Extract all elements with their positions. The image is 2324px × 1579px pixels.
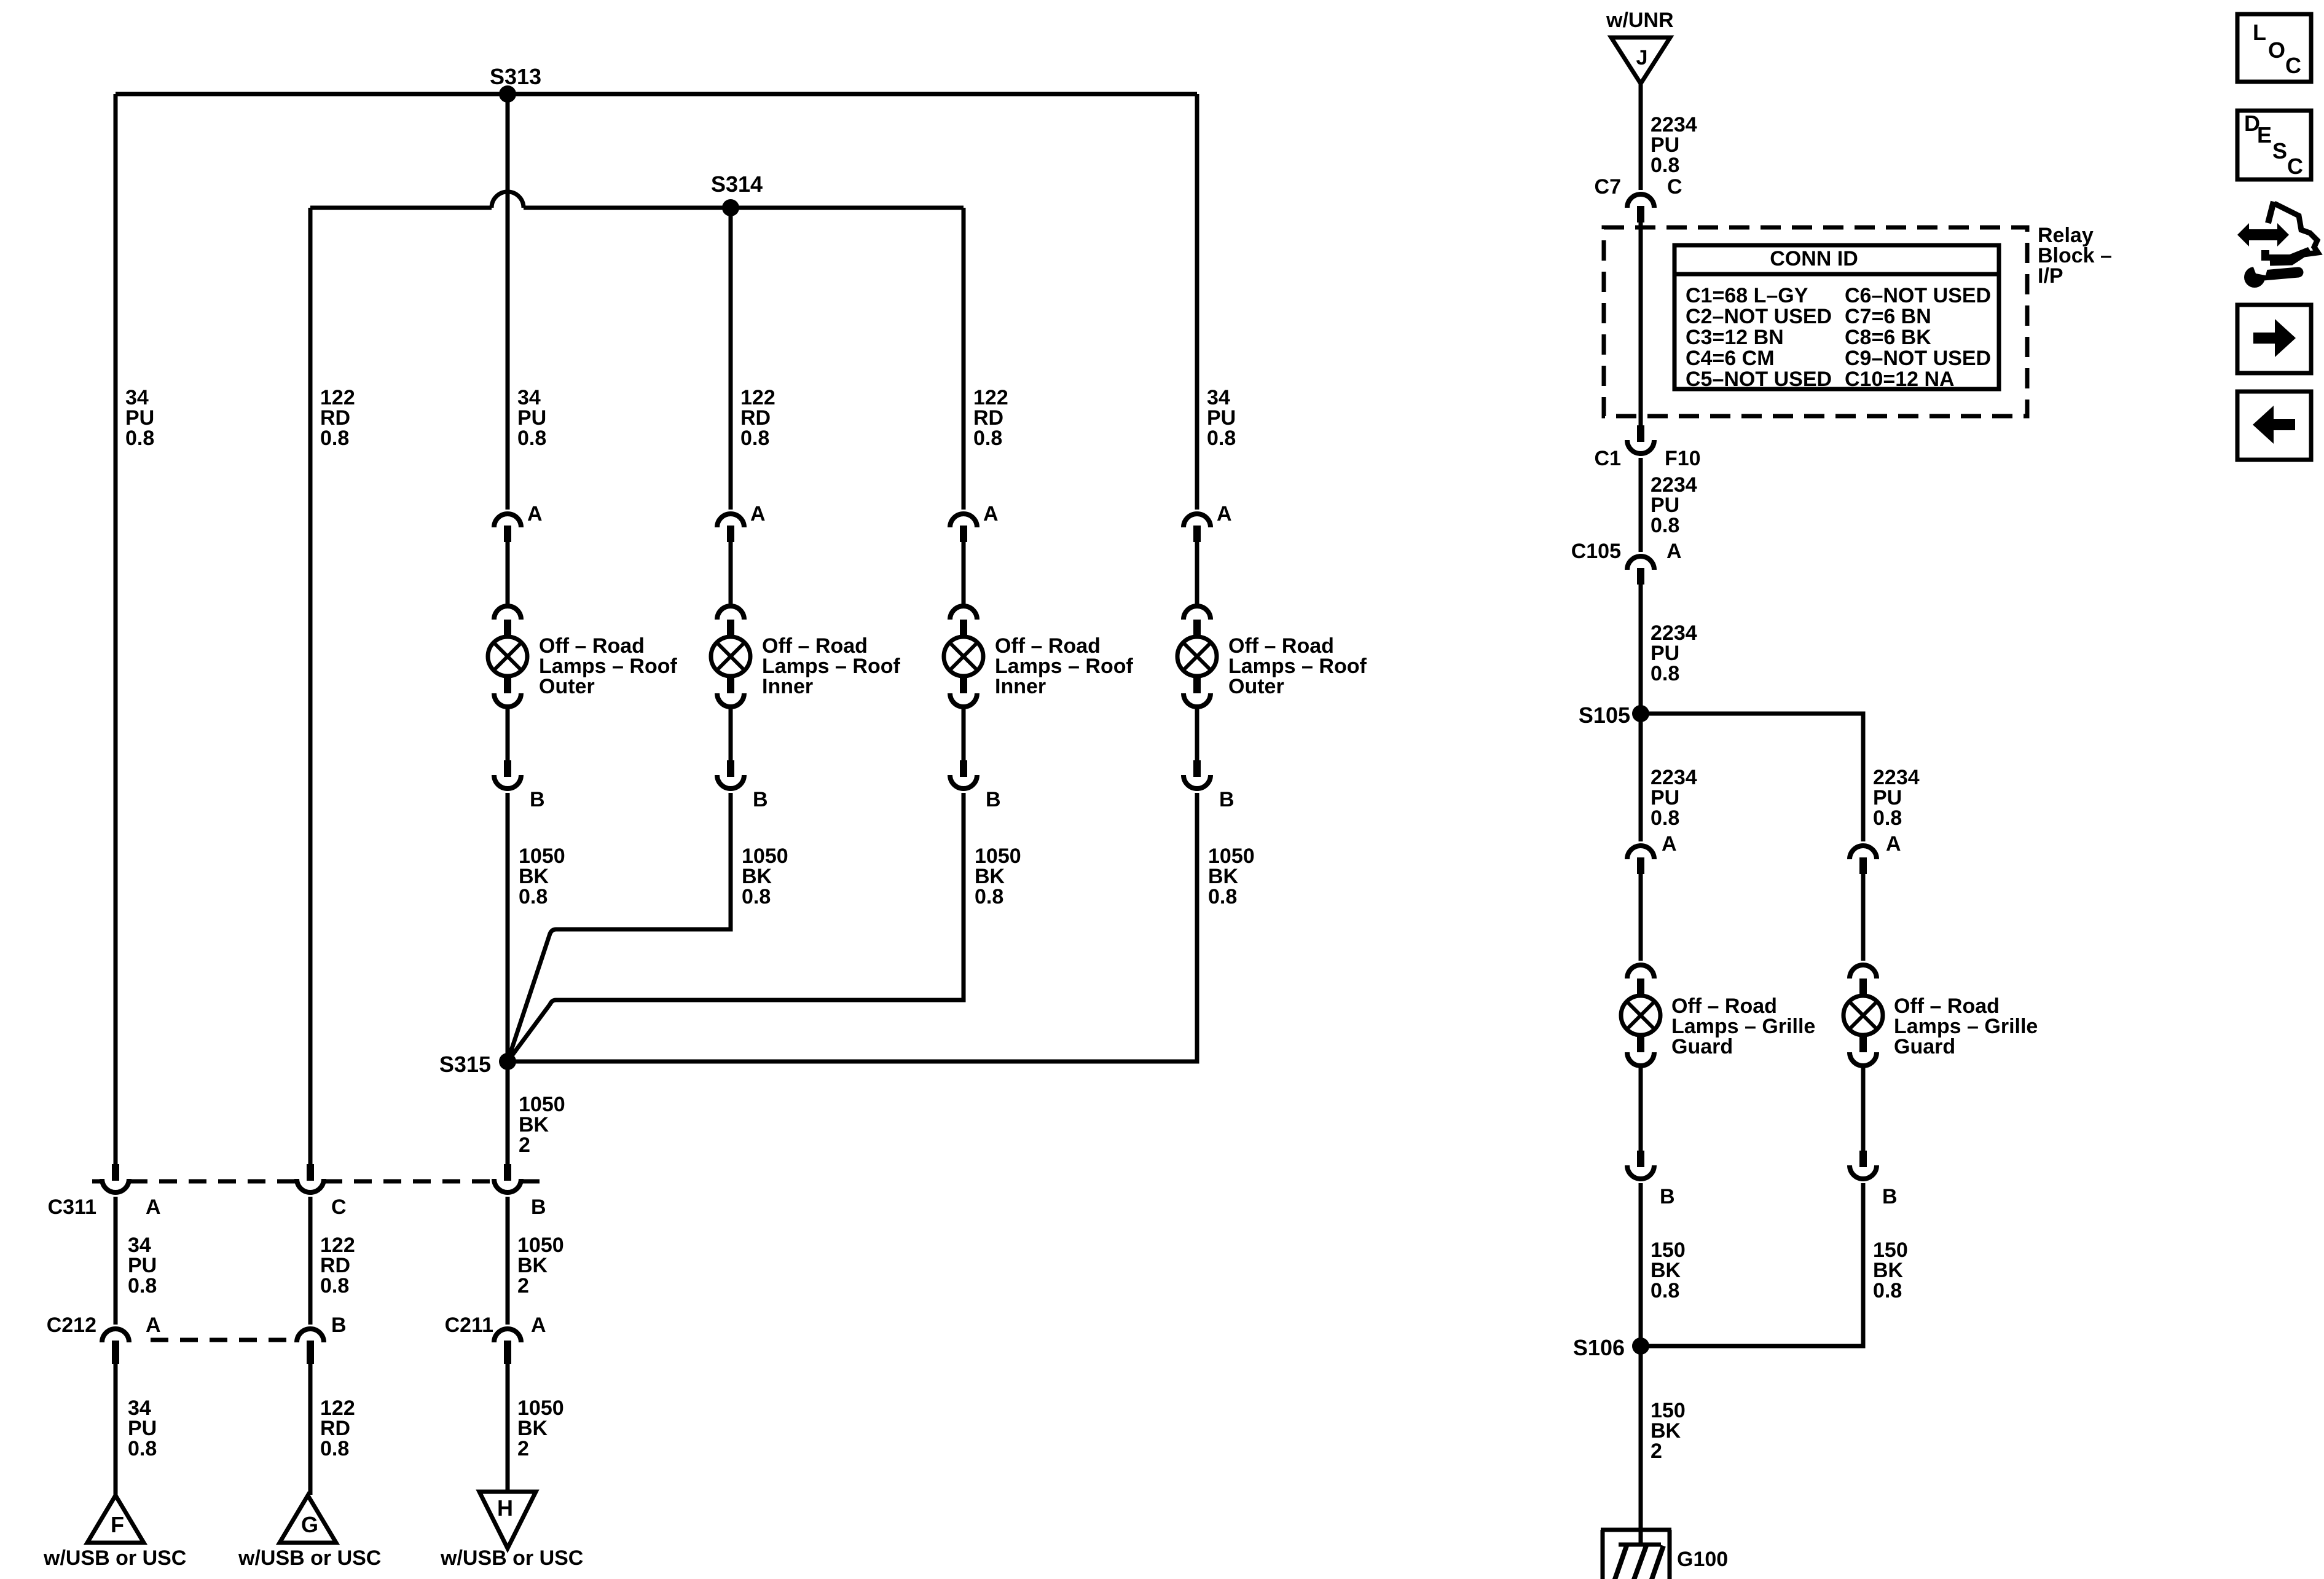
svg-text:Inner: Inner <box>762 675 813 698</box>
wire lamp 4 feed <box>1195 542 1199 607</box>
svg-text:C9–NOT USED: C9–NOT USED <box>1845 347 1991 370</box>
connector C311 terminal C <box>297 1164 324 1192</box>
svg-text:w/UNR: w/UNR <box>1606 9 1674 32</box>
off-road lamp 3 (Off - Road Lamps - Roof Inner) <box>944 606 983 707</box>
pin label A grille lamp left <box>1662 832 1677 856</box>
svg-text:A: A <box>1886 832 1901 856</box>
svg-text:0.8: 0.8 <box>128 1437 157 1460</box>
wire label 1050 BK 0.8 col3 <box>975 845 1021 908</box>
svg-text:0.8: 0.8 <box>125 427 154 450</box>
wire label 1050 BK 0.8 col4 <box>1208 845 1255 908</box>
svg-text:w/USB or USC: w/USB or USC <box>43 1546 186 1570</box>
off-road lamp grille right (Off - Road Lamps - Grille Guard) <box>1843 965 1883 1066</box>
splice S315 label <box>439 1052 491 1077</box>
svg-text:0.8: 0.8 <box>975 885 1003 908</box>
svg-text:G100: G100 <box>1677 1548 1728 1571</box>
wire 1050 BK col1 to S315 <box>506 793 510 1165</box>
CONN ID table left column <box>1686 284 1832 391</box>
svg-text:0.8: 0.8 <box>1873 1279 1902 1302</box>
wire lamp 1 feed <box>506 542 510 607</box>
qualifier label w/USB or USC (G) <box>238 1546 381 1570</box>
svg-text:A: A <box>531 1313 546 1337</box>
pin label A C212 <box>146 1313 161 1337</box>
wire 150 BK right to S106 <box>1641 1183 1863 1346</box>
wire 150 BK left to S106 <box>1639 1183 1643 1346</box>
back navigation box <box>2237 392 2311 460</box>
svg-text:C311: C311 <box>48 1195 96 1219</box>
svg-text:Guard: Guard <box>1671 1035 1733 1058</box>
LOC letters <box>2253 20 2301 78</box>
off-page connector triangle H <box>479 1492 536 1548</box>
lamp 2 name label <box>762 634 900 698</box>
pin label C C311 <box>331 1195 347 1219</box>
wire label 34 PU 0.8 left <box>125 386 154 450</box>
off-page connector triangle F <box>87 1495 144 1543</box>
connector C311 label <box>48 1195 96 1219</box>
CONN ID table header separator <box>1674 272 1999 277</box>
wire 122 RD C212 to G <box>308 1363 313 1495</box>
svg-text:C7: C7 <box>1595 175 1621 199</box>
connector C1 label <box>1595 447 1621 470</box>
svg-text:A: A <box>1666 540 1682 563</box>
connector C311 dashed boundary <box>92 1179 540 1184</box>
svg-text:S315: S315 <box>439 1052 491 1077</box>
wire label 122 RD 0.8 row3 <box>320 1396 355 1460</box>
splice S106 junction dot <box>1632 1337 1649 1355</box>
DESC navigation box <box>2237 111 2311 179</box>
off-page connector triangle J <box>1611 37 1670 84</box>
wire lamp 3 return <box>962 706 966 760</box>
connector pin A lamp 1 <box>494 514 521 542</box>
connector C1 terminal F10 <box>1627 425 1654 454</box>
wire 1050 BK C311 to C211 <box>506 1197 510 1325</box>
svg-text:0.8: 0.8 <box>519 885 548 908</box>
connector C311 terminal B <box>494 1164 521 1192</box>
wire label 122 RD 0.8 col3 <box>973 386 1008 450</box>
wire label 1050 BK 0.8 col1 <box>519 845 565 908</box>
connector pin B grille lamp left <box>1627 1151 1654 1179</box>
svg-text:F10: F10 <box>1665 447 1701 470</box>
svg-text:S105: S105 <box>1579 703 1630 728</box>
wire label 34 PU 0.8 row3 left <box>128 1396 157 1460</box>
svg-text:C6–NOT USED: C6–NOT USED <box>1845 284 1991 307</box>
wire label 2234 PU 0.8 right branch <box>1873 766 1920 830</box>
svg-text:CONN ID: CONN ID <box>1770 247 1858 270</box>
svg-text:C: C <box>2287 154 2303 179</box>
pin label B lamp 2 <box>753 788 768 811</box>
lamp 1 name label <box>539 634 677 698</box>
svg-text:I/P: I/P <box>2038 264 2063 288</box>
svg-text:H: H <box>497 1495 513 1521</box>
triangle J letter <box>1636 46 1648 69</box>
wire 122 RD from S314 to lamp column 3 <box>962 208 966 510</box>
pin label B grille left <box>1660 1185 1675 1208</box>
wire lamp 1 return <box>506 706 510 760</box>
qualifier label w/USB or USC (F) <box>43 1546 186 1570</box>
svg-text:A: A <box>1662 832 1677 856</box>
svg-text:w/USB or USC: w/USB or USC <box>440 1546 583 1570</box>
connector C211 terminal A <box>494 1329 521 1364</box>
pin label A lamp 4 <box>1217 502 1232 526</box>
wire label 34 PU 0.8 col1 <box>517 386 546 450</box>
connector pin B grille lamp right <box>1850 1151 1877 1179</box>
wire S313 horizontal bus <box>116 92 1197 96</box>
triangle H letter <box>497 1495 513 1521</box>
pin label A lamp 2 <box>750 502 766 526</box>
relay block I/P dashed outline <box>1604 227 2027 416</box>
svg-text:B: B <box>1882 1185 1898 1208</box>
qualifier label w/UNR <box>1606 9 1674 32</box>
wire label 34 PU 0.8 col4 <box>1207 386 1236 450</box>
svg-text:0.8: 0.8 <box>1873 806 1902 830</box>
wire 122 RD C311 to C212 <box>308 1197 313 1325</box>
svg-text:0.8: 0.8 <box>320 427 349 450</box>
pin label B lamp 4 <box>1219 788 1235 811</box>
forward navigation box <box>2237 305 2311 373</box>
connector C105 label <box>1571 540 1621 563</box>
svg-text:0.8: 0.8 <box>320 1274 349 1297</box>
svg-text:O: O <box>2268 37 2285 63</box>
wire 2234 PU through relay block <box>1639 222 1643 425</box>
wire label 150 BK 2 <box>1651 1399 1686 1463</box>
connector pin A lamp 3 <box>950 514 977 542</box>
svg-text:B: B <box>986 788 1001 811</box>
svg-text:S106: S106 <box>1573 1335 1625 1360</box>
connector C212 terminal A <box>102 1329 129 1364</box>
svg-text:C7=6 BN: C7=6 BN <box>1845 305 1931 328</box>
svg-text:C5–NOT USED: C5–NOT USED <box>1686 368 1832 391</box>
svg-text:L: L <box>2253 20 2266 45</box>
wire 34 PU C212 to F <box>114 1363 118 1495</box>
splice S105 label <box>1579 703 1630 728</box>
pin label C (C7) <box>1667 175 1682 199</box>
connector pin A lamp 2 <box>717 514 744 542</box>
splice S105 junction dot <box>1632 705 1649 722</box>
svg-text:J: J <box>1636 46 1648 69</box>
svg-text:F: F <box>111 1512 124 1537</box>
svg-text:S314: S314 <box>711 171 763 197</box>
wire 1050 BK col4 to S315 <box>508 793 1197 1061</box>
svg-text:0.8: 0.8 <box>1651 806 1679 830</box>
connector pin B lamp 4 <box>1184 760 1211 789</box>
triangle G letter <box>301 1512 318 1537</box>
wire lamp 2 return <box>729 706 733 760</box>
DESC letters <box>2244 111 2303 179</box>
svg-text:0.8: 0.8 <box>973 427 1002 450</box>
svg-text:0.8: 0.8 <box>320 1437 349 1460</box>
wire label 150 BK 0.8 left <box>1651 1238 1686 1302</box>
wire label 150 BK 0.8 right <box>1873 1238 1908 1302</box>
connector pin A lamp 4 <box>1184 514 1211 542</box>
wire 1050 BK col2 elbow to S315 <box>508 793 731 1061</box>
wire 1050 BK C211 to H <box>506 1363 510 1493</box>
wire label 34 PU 0.8 row2 left <box>128 1234 157 1297</box>
svg-text:Inner: Inner <box>995 675 1046 698</box>
svg-text:0.8: 0.8 <box>1651 662 1679 685</box>
svg-text:0.8: 0.8 <box>1651 154 1679 177</box>
wire 34 PU C311 to C212 <box>114 1197 118 1325</box>
svg-text:C4=6 CM: C4=6 CM <box>1686 347 1775 370</box>
wire 2234 PU C1 to C105 <box>1639 458 1643 552</box>
connector C212 terminal B <box>297 1329 324 1364</box>
pin label B C212 <box>331 1313 347 1337</box>
wire 122 RD from S314 to lamp column 2 <box>729 208 733 510</box>
off-road lamp grille left (Off - Road Lamps - Grille Guard) <box>1621 965 1660 1066</box>
splice S106 label <box>1573 1335 1625 1360</box>
CONN ID table box <box>1674 245 1999 389</box>
svg-text:A: A <box>1217 502 1232 526</box>
connector pin B lamp 3 <box>950 760 977 789</box>
splice S313 junction dot <box>499 85 516 103</box>
wire 34 PU from S313 to lamp column 4 <box>1195 94 1199 510</box>
svg-text:S313: S313 <box>490 64 541 89</box>
svg-text:B: B <box>1219 788 1235 811</box>
grille lamp left name label <box>1671 994 1815 1058</box>
svg-text:C1=68 L–GY: C1=68 L–GY <box>1686 284 1808 307</box>
wire 34 PU from S313 to left branch <box>114 94 118 1165</box>
wire label 2234 PU 0.8 (J) <box>1651 113 1697 177</box>
pin label A grille lamp right <box>1886 832 1901 856</box>
svg-text:2: 2 <box>517 1274 529 1297</box>
svg-text:0.8: 0.8 <box>740 427 769 450</box>
svg-text:C2–NOT USED: C2–NOT USED <box>1686 305 1832 328</box>
wire label 1050 BK 2 row2 <box>517 1234 564 1297</box>
splice S314 junction dot <box>722 199 739 216</box>
wire grille lamp left return <box>1639 1065 1643 1151</box>
CONN ID table title <box>1770 247 1858 270</box>
wire label 1050 BK 2 row3 <box>517 1396 564 1460</box>
wire S105 branch horizontal <box>1641 714 1863 841</box>
grille lamp right name label <box>1894 994 2038 1058</box>
svg-text:2: 2 <box>1651 1439 1662 1463</box>
svg-text:S: S <box>2272 138 2287 163</box>
svg-text:C1: C1 <box>1595 447 1621 470</box>
component-view navigation icon (arrows and wrench) <box>2237 202 2318 288</box>
pin label B lamp 3 <box>986 788 1001 811</box>
svg-text:A: A <box>146 1195 161 1219</box>
connector pin A grille lamp right <box>1850 846 1877 874</box>
connector C7 label <box>1595 175 1621 199</box>
svg-text:A: A <box>146 1313 161 1337</box>
wire 34 PU from S313 to lamp column 1 <box>506 94 510 510</box>
wire label 2234 PU 0.8 (C1) <box>1651 473 1697 537</box>
svg-text:C211: C211 <box>445 1313 493 1337</box>
svg-text:C10=12 NA: C10=12 NA <box>1845 368 1955 391</box>
wire grille lamp left feed <box>1639 874 1643 961</box>
wire label 122 RD 0.8 row2 <box>320 1234 355 1297</box>
off-page connector triangle G <box>280 1495 336 1543</box>
relay block label <box>2038 224 2112 288</box>
svg-text:C3=12 BN: C3=12 BN <box>1686 326 1784 349</box>
pin label B grille right <box>1882 1185 1898 1208</box>
forward arrow <box>2253 319 2296 357</box>
lamp 3 name label <box>995 634 1133 698</box>
svg-text:C: C <box>1667 175 1682 199</box>
connector C311 terminal A <box>102 1164 129 1192</box>
ground G100 <box>1601 1530 1671 1579</box>
splice S315 junction dot <box>499 1053 516 1070</box>
wire 2234 PU from J <box>1639 84 1643 190</box>
connector pin A grille lamp left <box>1627 846 1654 874</box>
svg-text:B: B <box>530 788 545 811</box>
triangle F letter <box>111 1512 124 1537</box>
svg-text:2: 2 <box>517 1437 529 1460</box>
svg-text:B: B <box>331 1313 347 1337</box>
pin label B lamp 1 <box>530 788 545 811</box>
wire label 1050 BK 0.8 col2 <box>742 845 788 908</box>
wire lamp 4 return <box>1195 706 1199 760</box>
wire label 2234 PU 0.8 (C105) <box>1651 621 1697 685</box>
wire 2234 PU S105 left branch <box>1639 714 1643 841</box>
svg-text:A: A <box>750 502 766 526</box>
svg-text:2: 2 <box>519 1133 530 1157</box>
pin label A C311 <box>146 1195 161 1219</box>
svg-text:0.8: 0.8 <box>1651 514 1679 537</box>
wire label 1050 BK 2 below S315 <box>519 1093 565 1157</box>
off-road lamp 1 (Off - Road Lamps - Roof Outer) <box>488 606 527 707</box>
svg-text:0.8: 0.8 <box>1651 1279 1679 1302</box>
splice S314 label <box>711 171 763 197</box>
lamp 4 name label <box>1228 634 1367 698</box>
pin label A lamp 3 <box>983 502 999 526</box>
svg-text:Outer: Outer <box>1228 675 1284 698</box>
svg-text:0.8: 0.8 <box>128 1274 157 1297</box>
wire label 2234 PU 0.8 left branch <box>1651 766 1697 830</box>
CONN ID table right column <box>1845 284 1991 391</box>
wire label 122 RD 0.8 col2 <box>740 386 775 450</box>
svg-text:E: E <box>2257 122 2272 148</box>
wire label 122 RD 0.8 <box>320 386 355 450</box>
off-road lamp 2 (Off - Road Lamps - Roof Inner) <box>711 606 750 707</box>
svg-text:B: B <box>753 788 768 811</box>
wire grille lamp right feed <box>1861 874 1866 961</box>
wire S314 horizontal bus with crossover hop <box>310 192 964 208</box>
pin label A C211 <box>531 1313 546 1337</box>
connector C212 label <box>47 1313 96 1337</box>
pin label B C311 <box>531 1195 546 1219</box>
svg-text:0.8: 0.8 <box>742 885 771 908</box>
svg-text:Guard: Guard <box>1894 1035 1955 1058</box>
LOC navigation box <box>2237 14 2311 82</box>
connector C105 terminal A <box>1627 556 1654 585</box>
svg-text:0.8: 0.8 <box>1208 885 1237 908</box>
svg-text:B: B <box>531 1195 546 1219</box>
svg-text:0.8: 0.8 <box>517 427 546 450</box>
svg-text:Outer: Outer <box>539 675 595 698</box>
wire lamp 3 feed <box>962 542 966 607</box>
svg-text:0.8: 0.8 <box>1207 427 1236 450</box>
connector C211 label <box>445 1313 493 1337</box>
qualifier label w/USB or USC (H) <box>440 1546 583 1570</box>
back arrow <box>2253 406 2295 444</box>
wire 1050 BK col3 elbow to S315 <box>508 793 964 1061</box>
svg-text:C212: C212 <box>47 1313 96 1337</box>
svg-text:C: C <box>2285 53 2301 78</box>
svg-text:A: A <box>983 502 999 526</box>
connector C7 terminal C <box>1627 194 1654 222</box>
wire 122 RD from S314 left end <box>308 208 313 1165</box>
svg-text:C105: C105 <box>1571 540 1621 563</box>
connector pin B lamp 2 <box>717 760 744 789</box>
wire lamp 2 feed <box>729 542 733 607</box>
splice S313 label <box>490 64 541 89</box>
pin label A (C105) <box>1666 540 1682 563</box>
ground G100 label <box>1677 1548 1728 1571</box>
svg-text:C: C <box>331 1195 347 1219</box>
svg-text:w/USB or USC: w/USB or USC <box>238 1546 381 1570</box>
svg-text:A: A <box>527 502 543 526</box>
wire grille lamp right return <box>1861 1065 1866 1151</box>
pin label A lamp 1 <box>527 502 543 526</box>
off-road lamp 4 (Off - Road Lamps - Roof Outer) <box>1177 606 1217 707</box>
svg-text:C8=6 BK: C8=6 BK <box>1845 326 1931 349</box>
svg-text:G: G <box>301 1512 318 1537</box>
wire 150 BK S106 to ground <box>1639 1346 1643 1545</box>
pin label F10 (C1) <box>1665 447 1701 470</box>
connector C212 dashed boundary <box>151 1338 295 1342</box>
wire 2234 PU C105 to S105 <box>1639 585 1643 714</box>
connector pin B lamp 1 <box>494 760 521 789</box>
svg-text:B: B <box>1660 1185 1675 1208</box>
